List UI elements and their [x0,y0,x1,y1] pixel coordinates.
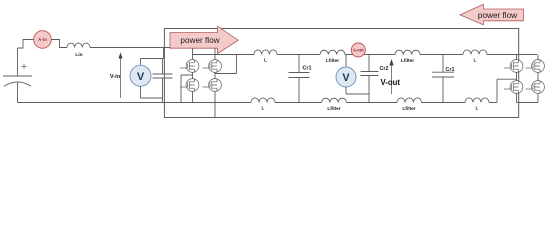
svg-text:power flow: power flow [478,11,517,20]
inductor Lfilter bottom left [322,98,347,102]
svg-text:V: V [342,72,350,84]
voltmeter V-out [336,55,369,95]
DC source battery [3,48,32,103]
ammeter A-in [34,31,52,49]
wire A-in to Lin [51,40,67,48]
svg-text:Cr2: Cr2 [380,66,389,72]
svg-text:L: L [476,106,479,112]
transistor Q8 [526,81,545,94]
svg-text:Lfilter: Lfilter [327,106,340,112]
inductor Lfilter top left [320,50,345,54]
svg-text:L: L [474,58,477,64]
power flow arrow (left-pointing) [460,4,523,25]
capacitor Cr1 right [432,55,454,103]
capacitor Cr2 [361,55,379,103]
inductor L top [254,50,277,55]
svg-text:V-in: V-in [110,74,121,80]
transistor Q2 [203,60,222,73]
bottom rail [18,102,498,104]
svg-text:Lfilter: Lfilter [326,58,339,64]
svg-text:Cr1: Cr1 [303,66,312,72]
transistor Q5 [504,60,523,73]
transistor Q3 [180,79,199,92]
svg-text:power flow: power flow [180,36,219,45]
converter box [164,29,518,118]
wire V-in bottom [141,86,163,98]
V-in measurement arrow [110,52,123,98]
svg-text:L: L [264,58,267,64]
svg-text:A-in: A-in [38,37,47,42]
top rail inside box [193,54,538,56]
wire bridge 1 left-leg midpoint to bottom rail [181,75,193,103]
wire bridge 2 bottom bus [517,102,539,104]
svg-text:Lfilter: Lfilter [401,58,414,64]
svg-text:V: V [137,71,145,83]
inductor Lfilter bottom right [397,98,422,103]
ammeter A-out [351,43,365,57]
svg-text:L: L [262,106,265,112]
transistor Q4 [203,79,222,92]
transistor Q1 [180,60,199,73]
capacitor Cin [153,59,173,103]
transistor Q6 [526,60,545,73]
inductor Lfilter top right [395,50,420,54]
capacitor Cr1 [289,55,310,103]
transistor Q7 [504,81,523,94]
wire bridge 1 right-leg midpoint to top rail [215,55,237,74]
svg-text:A-out: A-out [353,48,364,53]
wire battery to A-in [18,40,34,49]
power flow arrow (right-pointing) [170,26,238,53]
inductor L bottom left [251,98,275,103]
svg-text:V-out: V-out [381,78,401,87]
bridge 2 leg wires [517,55,539,103]
inductor Lin [67,43,90,47]
svg-text:Lfilter: Lfilter [402,106,415,112]
wire V-in top [141,58,164,60]
bridge 1 leg wires [193,48,216,118]
inductor L bottom right [465,98,489,103]
inductor L top right [463,50,487,55]
wire bridge 2 left-leg midpoint to bottom rail [497,79,517,102]
wire input top rail [90,47,164,49]
svg-text:Cr1: Cr1 [446,67,455,73]
wire jog at box edge [164,48,171,59]
svg-text:Lin: Lin [75,52,82,58]
voltmeter V-in [130,65,151,86]
V-out measurement arrow [381,59,401,94]
